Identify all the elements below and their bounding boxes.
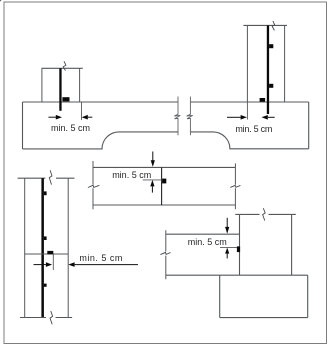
slab bottom edge left with haunch curve [23,132,179,149]
dimension arrow left (top-left) [48,116,56,118]
sleeve box left edge (top-right) [246,25,248,101]
up arrowhead (bottom-right dimension) [225,248,229,254]
slab break line left [174,97,180,136]
clamp square at slab surface (top-right) [260,98,266,102]
scan corner tick [0,0,1,1]
down arrowhead (bottom-right dimension) [225,227,229,234]
bottom bearing line (bottom-right) [166,274,308,276]
up arrow shaft (bottom-right dimension) [226,254,228,259]
clamp square (middle wall) [162,179,166,184]
dimension arrow right-pointing (bottom-left) [34,264,46,266]
break mark on top ledger (bottom-left) [49,170,52,184]
break mark on column ledger (bottom-right) [263,208,266,220]
dimension arrow left (top-right) [227,116,241,118]
middle wall left edge with break [92,161,94,209]
break tilde on middle wall right edge [230,185,240,187]
dimension line (bottom-right) [220,247,240,249]
column right edge (bottom-right) [291,214,293,275]
pipe clamp upper (top-right) [269,44,273,48]
sleeve box ledger line (top-left) [42,67,83,69]
middle wall bottom edge [93,204,235,206]
sleeve box right edge (top-right) [284,25,286,101]
wall bottom ledger (bottom-left) [20,317,72,319]
slab left edge [22,102,24,149]
slab top edge (left segment) [23,101,179,103]
break tilde on slab left edge (bottom-right) [160,252,170,254]
footing right edge (bottom-right) [307,275,309,317]
wall left edge (bottom-left) [24,178,26,317]
slab top edge (right segment) [190,101,308,103]
sleeve box ledger line (top-right) [243,24,287,26]
conduit pipe (bottom-left) [41,178,44,317]
label min. 5 cm (middle) [112,171,151,180]
up arrow shaft (middle dimension) [151,186,153,192]
break mark on bottom ledger (bottom-left) [50,311,53,324]
dimension line (middle) [143,179,162,181]
down arrow shaft (middle dimension) [152,152,154,161]
dimension extension line (top-right) [246,103,248,120]
clamp on reference line (bottom-left) [47,251,53,254]
conduit line (middle wall) [161,167,163,205]
label min. 5 cm (top-right) [235,125,272,134]
footing bottom edge (bottom-right) [220,317,308,319]
sleeve box left edge (top-left) [41,68,43,101]
dimension extension line (bottom-left) [52,255,54,271]
sleeve box right edge (top-left) [79,68,81,101]
break mark on ledger (top-left) [63,61,66,70]
footing left edge (bottom-right) [219,275,221,317]
label min. 5 cm (bottom-right) [188,238,227,247]
dimension arrow left-pointing (bottom-left) [68,262,74,267]
slab bottom edge right with haunch curve [190,132,308,149]
down arrowhead (middle dimension) [151,160,155,167]
conduit pipe (top-left) [59,68,61,111]
slab top edge (bottom-right) [166,233,240,235]
pipe clamp 1 (bottom-left) [44,191,47,195]
slab break line right [187,97,193,136]
middle wall top edge [93,166,235,168]
slab right edge [308,102,310,149]
reference line (bottom-left) [25,253,68,255]
column top ledger (bottom-right) [235,213,295,215]
column left edge (bottom-right) [239,214,241,275]
clamp square at slab surface (top-left) [62,97,69,101]
dimension extension line (top-left) [81,103,83,121]
up arrowhead (middle dimension) [150,180,154,187]
pipe clamp 3 (bottom-left) [44,284,47,287]
slab left edge with break (bottom-right) [165,230,167,279]
pipe clamp 2 (bottom-left) [44,236,47,240]
down arrow shaft (bottom-right dimension) [226,218,228,227]
middle wall right edge with break [234,163,236,209]
pipe clamp lower (top-right) [269,84,273,88]
wall right edge (bottom-left) [67,178,69,317]
conduit pipe (top-right) [267,25,269,114]
break mark on ledger (top-right) [272,21,274,31]
conduit square at column face (bottom-right) [237,246,240,252]
label min. 5 cm (top-left) [51,124,90,133]
dimension arrow right (top-left) [82,115,88,120]
dimension arrow right (top-right) [262,115,268,120]
break tilde on middle wall left edge [88,185,100,187]
wall top ledger (bottom-left) [18,177,75,179]
label min. 5 cm (bottom-left) [79,254,123,263]
